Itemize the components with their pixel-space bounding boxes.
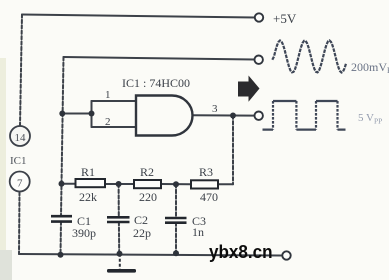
svg-text:14: 14	[15, 132, 27, 144]
node R1 left	[59, 181, 65, 187]
wire second rail to sine terminal	[64, 57, 255, 60]
svg-text:390p: 390p	[72, 226, 96, 240]
square waveform	[263, 101, 346, 130]
wire gate pin1	[92, 100, 137, 102]
wire R1 left lead	[62, 183, 76, 185]
svg-text:+5V: +5V	[273, 11, 297, 26]
node rail C1	[58, 252, 64, 258]
wire input tie vertical	[91, 101, 93, 127]
node gate input tie	[89, 111, 95, 117]
op-amp U1 : NAND gate IC1 74HC00 body	[136, 96, 193, 136]
svg-text:R1: R1	[81, 165, 95, 179]
terminal ground	[282, 251, 290, 259]
wire input column x63	[61, 57, 64, 216]
svg-text:3: 3	[212, 103, 218, 115]
arrow (signal flow)	[238, 76, 260, 102]
wire C3 bottom lead	[175, 223, 177, 254]
pin circle 14 of IC1	[10, 126, 30, 146]
wire C1 bottom lead	[60, 222, 63, 255]
svg-text:7: 7	[17, 178, 23, 190]
svg-text:22p: 22p	[133, 226, 151, 240]
capacitor C1	[51, 214, 96, 240]
terminal sine input	[255, 56, 263, 64]
node R1-R2 junction	[116, 181, 122, 187]
svg-text:22k: 22k	[79, 190, 97, 204]
wire feedback vertical output to R3	[232, 116, 234, 185]
svg-text:R2: R2	[140, 165, 154, 179]
terminal output	[255, 112, 263, 120]
resistor R3	[191, 165, 218, 204]
svg-text:C2: C2	[134, 213, 148, 227]
svg-text:R3: R3	[199, 165, 213, 179]
wire bottom ground rail	[19, 254, 283, 256]
capacitor C3	[165, 214, 206, 239]
node output junction	[230, 113, 236, 119]
node rail C3	[173, 250, 179, 256]
wire top rail (+5V)	[22, 15, 255, 18]
svg-text:IC1: IC1	[10, 155, 27, 167]
pin circle 7 of IC1	[10, 172, 30, 192]
wire gate pin2	[92, 126, 137, 128]
capacitor C2	[107, 213, 151, 240]
wire R2-R3 segment	[161, 183, 191, 185]
wire C2 top lead	[118, 184, 120, 217]
svg-text:200mVP: 200mVP	[351, 60, 389, 75]
wire pin7 to ground rail	[18, 192, 21, 254]
terminal +5V	[255, 11, 297, 26]
scan smudge bottom-left	[0, 250, 12, 280]
sine waveform	[272, 41, 346, 73]
svg-text:470: 470	[200, 190, 218, 204]
resistor R1	[76, 165, 106, 204]
wire C3 top lead	[175, 184, 177, 218]
svg-text:5 VPP: 5 VPP	[358, 112, 382, 126]
wire R3 right lead	[218, 183, 233, 185]
node R2-R3 junction	[173, 181, 179, 187]
svg-text:IC1 : 74HC00: IC1 : 74HC00	[122, 76, 190, 90]
svg-text:ybx8.cn: ybx8.cn	[209, 241, 273, 262]
wire gate output pin3	[193, 114, 255, 116]
wire junction to gate inputs	[62, 113, 91, 115]
ground	[107, 254, 136, 273]
svg-text:1: 1	[105, 89, 111, 101]
svg-text:2: 2	[105, 116, 111, 128]
svg-text:1n: 1n	[192, 225, 204, 239]
wire R1-R2 segment	[105, 183, 134, 185]
wire left vertical (VCC column)	[20, 15, 22, 127]
wire C2 bottom lead	[118, 222, 120, 254]
node VCC junction at input column	[59, 111, 65, 117]
svg-text:220: 220	[139, 190, 157, 204]
node rail C2/ground	[117, 251, 123, 257]
scan tint left edge	[0, 58, 6, 280]
resistor R2	[134, 165, 161, 204]
